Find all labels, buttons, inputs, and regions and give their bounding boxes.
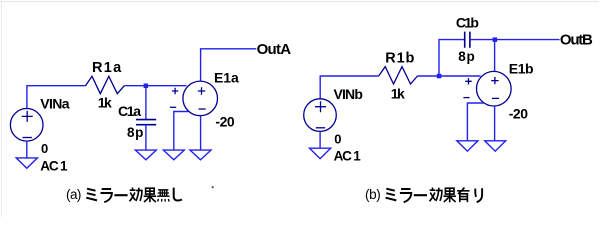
svg-text:(b): (b) [365, 187, 381, 202]
svg-text:C1b: C1b [456, 14, 479, 30]
wire E1b out+ [494, 40, 496, 72]
resistor R1b [379, 67, 418, 84]
svg-text:1k: 1k [98, 95, 112, 111]
svg-text:C1a: C1a [118, 103, 141, 119]
svg-text:-20: -20 [215, 114, 235, 130]
svg-text:VINa: VINa [40, 96, 70, 112]
wire E1a out- to ground [200, 115, 202, 150]
wire C1a bottom [145, 125, 147, 151]
ground VINb [310, 148, 331, 158]
dependent source E1a [170, 81, 218, 116]
wire VINa top to resistor [27, 86, 86, 109]
svg-text:1k: 1k [391, 86, 405, 102]
stray dot [212, 186, 214, 188]
wire E1b out- to ground [494, 106, 496, 141]
svg-text:E1b: E1b [509, 60, 534, 76]
caption (a) ミラー効果無し [66, 187, 182, 202]
caption (b) ミラー効果有り [365, 187, 482, 202]
voltage source VINb [304, 99, 337, 132]
junction node at E1b out+ [493, 37, 498, 42]
wire resistor to E1a [124, 85, 186, 87]
svg-text:AC 1: AC 1 [40, 158, 68, 173]
svg-text:VINb: VINb [334, 86, 363, 102]
svg-text:OutB: OutB [560, 32, 593, 49]
svg-text:8p: 8p [458, 49, 474, 64]
wire E1a in- to ground [174, 112, 189, 151]
svg-text:AC 1: AC 1 [334, 149, 362, 164]
junction node at R1b/C1b [437, 74, 442, 79]
wire junction down to C1a [145, 86, 147, 120]
svg-text:0: 0 [41, 141, 48, 156]
wire junction up to C1b [439, 40, 465, 76]
wire resistor to E1b [418, 75, 481, 77]
resistor R1a [86, 76, 125, 93]
svg-text:E1a: E1a [214, 70, 239, 86]
capacitor C1a [136, 120, 156, 125]
svg-text:0: 0 [334, 132, 341, 147]
junction node at R1a/C1a [144, 84, 149, 89]
ground below E1a out- [190, 150, 211, 160]
voltage source VINa [10, 109, 43, 142]
svg-text:(a): (a) [66, 187, 81, 202]
svg-text:OutA: OutA [257, 41, 292, 58]
wire C1b to OutB [470, 39, 560, 41]
ground VINa [16, 158, 37, 168]
wire VINa bottom [26, 141, 28, 158]
svg-text:R1b: R1b [385, 50, 414, 66]
wire VINb top to resistor [320, 76, 379, 99]
svg-text:8p: 8p [127, 125, 143, 140]
wire E1a out+ to OutA [201, 49, 257, 81]
wire VINb bottom [319, 131, 321, 148]
svg-text:R1a: R1a [92, 60, 122, 76]
ground below E1a in- [163, 150, 184, 160]
wire E1b in- to ground [467, 103, 484, 141]
dependent source E1b [463, 71, 511, 106]
ground below E1b in- [457, 141, 478, 151]
ground below C1a [135, 150, 156, 160]
ground below E1b out- [485, 141, 506, 151]
capacitor C1b [465, 32, 470, 48]
svg-text:-20: -20 [509, 106, 529, 122]
